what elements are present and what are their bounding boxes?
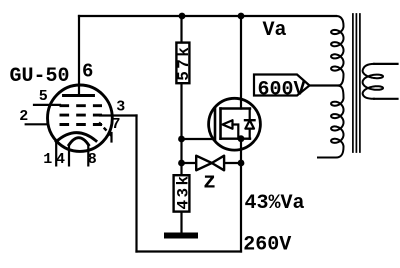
wire pin1 leg	[55, 142, 57, 166]
tube V1 grid row 2	[60, 114, 103, 117]
ground	[164, 233, 198, 239]
svg-text:5: 5	[39, 88, 48, 105]
600V flag	[254, 75, 310, 96]
svg-text:600V: 600V	[258, 79, 306, 102]
wire source down to bottom rail	[240, 163, 242, 252]
node source-zener	[238, 160, 245, 167]
wire pin4 leg	[68, 145, 70, 166]
svg-text:43k: 43k	[175, 173, 193, 209]
svg-text:43%Va: 43%Va	[245, 192, 305, 215]
wire top rail	[79, 15, 336, 17]
core line 3	[359, 14, 361, 152]
transistor Q1 gate bar	[214, 108, 217, 140]
wire secondary top stub	[374, 63, 398, 65]
transistor Q1 drain bar	[221, 107, 251, 109]
wire pin3 lead	[100, 114, 137, 116]
wire pin2 lead	[26, 123, 47, 125]
svg-text:57k: 57k	[175, 45, 193, 81]
wire bottom rail	[137, 250, 242, 252]
svg-text:GU-50: GU-50	[10, 65, 70, 88]
core line 2	[355, 14, 357, 152]
svg-text:1: 1	[43, 151, 52, 168]
transistor Q1 MOSFET body circle	[209, 98, 261, 150]
wire 57k top lead	[180, 16, 182, 42]
svg-text:3: 3	[116, 98, 125, 115]
wire source lead	[240, 139, 242, 163]
svg-text:6: 6	[82, 61, 93, 83]
zener Z bidirectional	[196, 156, 212, 171]
svg-text:8: 8	[88, 151, 97, 168]
wire cathode return up	[135, 116, 137, 252]
inductor secondary	[363, 64, 383, 99]
inductor primary lower	[318, 86, 344, 158]
core line 1	[352, 14, 354, 152]
wire pin5 lead	[34, 104, 60, 106]
wire drain lead	[240, 16, 242, 109]
node top of MOSFET drain	[238, 13, 245, 20]
wire zener left lead	[182, 162, 196, 164]
tube V1 pin7 dashed internal	[99, 123, 112, 137]
wire gate lead	[182, 138, 215, 140]
wire pin8 leg	[87, 145, 89, 166]
node top of 57k	[179, 13, 186, 20]
transistor Q1 body arrow	[223, 120, 233, 129]
transistor Q1 source bar	[221, 137, 251, 139]
svg-text:2: 2	[19, 108, 28, 125]
wire secondary bottom stub	[374, 98, 398, 100]
svg-text:260V: 260V	[243, 234, 291, 257]
tube V1 plate	[64, 94, 94, 97]
node zener left	[178, 160, 185, 167]
svg-text:Va: Va	[263, 19, 287, 42]
svg-text:z: z	[203, 170, 216, 195]
wire flag tip to tap	[310, 84, 338, 86]
tube V1 grid row 3	[60, 123, 103, 126]
wire gate node to zener node	[180, 139, 182, 163]
resistor R2 43k	[174, 175, 190, 211]
tube V1 envelope	[48, 85, 113, 151]
wire plate lead	[78, 16, 80, 95]
inductor primary upper	[331, 16, 343, 86]
wire zener node to 43k	[180, 163, 182, 174]
transistor Q1 channel bar	[219, 109, 222, 139]
wire zener right lead	[225, 162, 241, 164]
svg-text:7: 7	[112, 116, 121, 133]
resistor R1 57k	[176, 43, 189, 84]
tube V1 cathode arc	[56, 133, 96, 142]
tube V1 grid row 1	[60, 104, 103, 107]
wire 57k bottom lead to gate node	[180, 84, 182, 139]
wire 43k bottom lead	[180, 213, 182, 234]
node source bottom bar	[238, 135, 245, 142]
svg-text:4: 4	[56, 151, 65, 168]
diode D1 body diode	[249, 109, 251, 121]
wire pin7 stub	[110, 133, 112, 142]
tube V1 heater arc	[69, 138, 89, 145]
node gate	[178, 136, 185, 143]
